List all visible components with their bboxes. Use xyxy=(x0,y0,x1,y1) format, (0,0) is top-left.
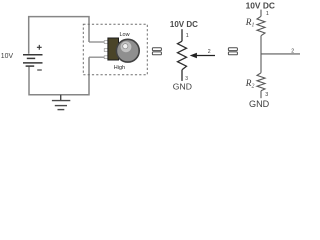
wire top of left loop xyxy=(29,17,89,54)
wire bottom lead of potentiometer symbol xyxy=(181,70,183,81)
potentiometer pin 1 (top) xyxy=(104,41,108,44)
resistor R2 xyxy=(257,73,265,91)
svg-text:10V DC: 10V DC xyxy=(246,1,275,11)
svg-text:3: 3 xyxy=(265,92,268,98)
battery minus sign xyxy=(37,69,42,71)
wire bottom lead to potentiometer xyxy=(89,56,105,58)
potentiometer knob highlight xyxy=(121,41,132,52)
svg-text:2: 2 xyxy=(291,48,294,54)
battery plus sign xyxy=(37,45,42,50)
battery V1 xyxy=(23,55,43,66)
svg-text:10V: 10V xyxy=(1,53,14,60)
potentiometer body xyxy=(108,38,119,60)
wire top lead of potentiometer symbol xyxy=(181,29,183,41)
resistor R1 xyxy=(257,16,265,35)
svg-text:GND: GND xyxy=(249,99,270,109)
svg-text:10V DC: 10V DC xyxy=(170,20,198,29)
wire between R1 and R2 xyxy=(260,36,262,73)
wire top lead R1 xyxy=(260,10,262,17)
wire top lead to potentiometer xyxy=(89,41,105,43)
equivalence symbol 1 xyxy=(152,48,161,55)
potentiometer symbol resistive element xyxy=(178,41,187,70)
dashed enclosure box xyxy=(83,24,147,75)
potentiometer pin 2 (wiper stub) xyxy=(104,49,108,52)
svg-text:1: 1 xyxy=(186,33,189,39)
potentiometer pin 3 (bottom) xyxy=(104,56,108,59)
svg-text:1: 1 xyxy=(266,11,269,17)
svg-text:2: 2 xyxy=(208,49,211,55)
potentiometer knob indicator dot xyxy=(123,44,128,49)
wire bottom lead R2 xyxy=(260,91,262,98)
wire node 2 tap xyxy=(261,53,300,55)
wiper arrowhead xyxy=(190,53,197,58)
ground xyxy=(52,95,70,110)
wiper arrow wire xyxy=(196,55,215,57)
wire bottom of left loop xyxy=(29,57,89,95)
svg-text:Low: Low xyxy=(120,32,130,38)
potentiometer knob xyxy=(116,39,139,62)
equivalence symbol 2 xyxy=(228,48,237,55)
svg-text:GND: GND xyxy=(173,82,192,92)
svg-text:High: High xyxy=(114,65,125,71)
